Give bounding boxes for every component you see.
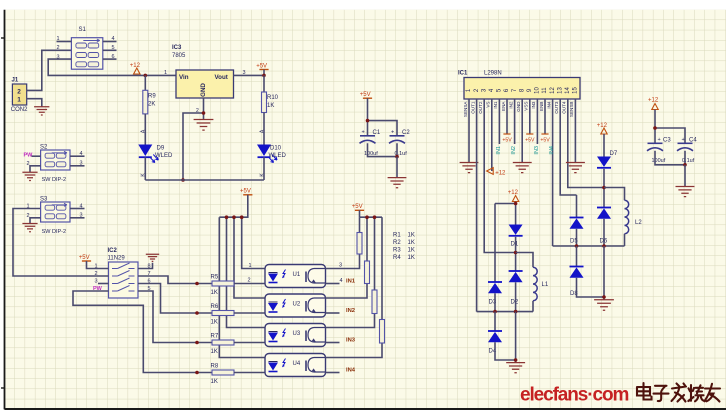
svg-text:1: 1: [17, 97, 21, 104]
svg-text:15: 15: [573, 87, 579, 94]
wire L1 bottom to rail: [532, 301, 534, 312]
svg-text:R2: R2: [393, 240, 401, 246]
wire IC1 pin14 OUT4 to right bridge node: [568, 99, 604, 188]
wire D4 anode to ground node: [495, 342, 516, 360]
wire R1-R4 top rail: [360, 216, 383, 218]
wire +5V node to R10: [263, 75, 265, 92]
junction LED return rail: [181, 178, 185, 182]
wire D2 to rail: [515, 282, 517, 311]
svg-text:D10: D10: [270, 146, 282, 152]
wire IC1 pin2 OUT1 to left bridge rail: [476, 99, 478, 312]
wire +12 rail to R9: [144, 75, 146, 90]
wire C bank to ground: [396, 157, 398, 178]
wire D6 to rail: [603, 219, 605, 246]
power +5V at IC2 pin1: [79, 255, 91, 261]
svg-text:+12: +12: [597, 123, 608, 129]
wire rail to U1 pin1: [242, 217, 265, 268]
svg-text:3: 3: [80, 213, 83, 219]
svg-text:8: 8: [148, 264, 151, 270]
svg-text:+5V: +5V: [540, 138, 550, 144]
svg-text:+5V: +5V: [240, 189, 251, 195]
svg-text:1: 1: [164, 70, 167, 76]
svg-text:R1: R1: [393, 233, 401, 239]
wire IC1 pin11 ENB stub: [544, 99, 546, 134]
svg-text:+5V: +5V: [525, 138, 535, 144]
border ruler tick top: [1, 37, 5, 39]
IC1 pin name labels SENSA..SENSB: [463, 101, 574, 118]
svg-text:IC3: IC3: [172, 45, 182, 51]
wire S2 pin4 stub: [70, 155, 85, 157]
wire +5V stem: [359, 210, 361, 217]
svg-text:+: +: [391, 129, 394, 135]
svg-text:1K: 1K: [211, 320, 218, 326]
svg-text:Vin: Vin: [179, 74, 189, 81]
wire IC2 pin6 to R6 row: [138, 284, 212, 314]
junction C1 top rail: [366, 119, 370, 123]
wire IC3 Vout to +5V node: [234, 74, 265, 76]
wire D3 cathode row to +12 column: [495, 203, 516, 205]
svg-text:4: 4: [112, 36, 115, 42]
capacitor C4 0.1uf: [677, 137, 697, 164]
DIP switch S1: [71, 27, 102, 69]
svg-text:3: 3: [80, 161, 83, 167]
capacitor C1 100uf: [360, 129, 381, 157]
svg-text:OUT2: OUT2: [478, 101, 483, 114]
wire rail to R4: [381, 217, 383, 319]
svg-text:13: 13: [557, 87, 563, 94]
wire J1 pin2 to S1 pin2: [27, 50, 72, 90]
wire rail to D8 cathode: [576, 246, 578, 267]
optocoupler U4: [265, 354, 326, 377]
svg-text:4: 4: [80, 203, 83, 209]
wire rail to U4 pin1: [219, 217, 265, 357]
svg-text:1: 1: [57, 36, 60, 42]
svg-text:SW DIP-2: SW DIP-2: [42, 177, 66, 183]
wire rail to U2 pin1: [234, 217, 265, 298]
diode D8: [570, 267, 584, 278]
svg-text:S3: S3: [40, 197, 48, 203]
capacitor C3 100uf: [647, 137, 671, 164]
power +12 above D1: [508, 190, 519, 202]
power +12 at input rail: [130, 63, 141, 74]
svg-text:S2: S2: [40, 145, 48, 151]
wire U3 pin4 out: [326, 342, 340, 344]
wire rail to R2: [366, 217, 368, 261]
wire U2 pin3 to R2: [326, 284, 368, 299]
svg-text:SENSA: SENSA: [463, 101, 468, 118]
wire D9 cathode down: [144, 157, 146, 180]
ground at IC2 pin8: [146, 254, 159, 261]
svg-text:+5V: +5V: [502, 138, 512, 144]
svg-text:IN4: IN4: [346, 368, 356, 374]
svg-text:+12: +12: [508, 190, 519, 196]
wire R10 to D10 anode: [263, 113, 265, 145]
IC2 driver: [109, 262, 139, 298]
resistor R6: [212, 311, 234, 316]
svg-text:+: +: [682, 137, 685, 143]
svg-text:+12: +12: [495, 171, 506, 177]
wire D8 anode to ground node: [577, 278, 605, 297]
wire D5 anode to rail: [576, 229, 578, 246]
junction C3 top rail: [653, 126, 657, 130]
junction rail / D6 column: [602, 244, 606, 248]
wire R6 to U2 pin2: [234, 312, 265, 314]
svg-text:0.1uf: 0.1uf: [682, 158, 695, 164]
voltage regulator IC3 7805: [176, 70, 234, 98]
junction left bridge node: [514, 251, 518, 255]
svg-text:2: 2: [95, 271, 98, 277]
svg-text:ENB: ENB: [539, 102, 544, 111]
svg-text:ENA: ENA: [501, 101, 506, 111]
svg-text:+5V: +5V: [360, 92, 371, 98]
junction C2 bottom rail: [395, 155, 399, 159]
inductor L1: [533, 267, 537, 301]
svg-text:2: 2: [27, 161, 30, 167]
wire left bridge bottom rail: [477, 311, 533, 313]
junction +5V node / R10: [262, 74, 266, 78]
junction C4 bottom rail: [683, 163, 687, 167]
svg-text:IC1: IC1: [458, 71, 468, 77]
svg-text:4: 4: [80, 151, 83, 157]
junction U3 anode rail: [225, 215, 229, 219]
svg-text:L298N: L298N: [484, 71, 502, 77]
svg-text:WLED: WLED: [269, 153, 287, 159]
svg-text:R9: R9: [148, 93, 156, 99]
IC1 pin numbers 1-15: [466, 87, 578, 94]
wire D7 to right bridge node: [603, 169, 605, 208]
wire C1/C2 bottom rail: [368, 143, 398, 156]
wire D6 column to ground: [603, 246, 605, 300]
wire U4 pin4 out: [326, 372, 340, 374]
wire R7 to U3 pin2: [234, 342, 265, 344]
diode D4: [488, 331, 502, 342]
wire S2 pin2 to ground: [30, 166, 41, 172]
resistor R2: [365, 261, 370, 284]
svg-text:IN1: IN1: [493, 101, 498, 109]
wire U4 pin3 to R4: [326, 343, 383, 358]
wire IC1 pin9 VSS stub: [529, 99, 531, 134]
junction R6 row: [195, 311, 199, 315]
resistor R9: [143, 90, 148, 114]
svg-text:VS: VS: [486, 102, 491, 108]
svg-text:R10: R10: [267, 95, 279, 101]
svg-text:6: 6: [112, 54, 115, 60]
svg-text:R8: R8: [211, 364, 219, 370]
wire U1 pin4 out: [326, 283, 340, 285]
junction at IC3 GND node: [202, 111, 206, 115]
S1 pin6 line: [103, 58, 117, 60]
svg-text:1K: 1K: [267, 103, 274, 109]
svg-text:OUT1: OUT1: [470, 101, 475, 114]
svg-text:2: 2: [17, 88, 21, 95]
wire J1 pin1 to ground: [27, 99, 42, 107]
wire L2 bottom to rail: [624, 234, 626, 246]
power +5V at IC1 ENB: [540, 134, 550, 144]
svg-text:1K: 1K: [408, 255, 415, 261]
wire S3 pin4 stub: [70, 208, 85, 210]
svg-text:S1: S1: [79, 27, 87, 33]
svg-text:12: 12: [550, 87, 556, 94]
svg-text:7805: 7805: [172, 53, 186, 59]
wire D2 column to ground: [515, 312, 517, 363]
wire IC1 pin1 SENSA to ground: [468, 99, 470, 162]
sheet border left edge: [4, 10, 6, 410]
junction R5 row: [195, 282, 199, 286]
wire IC2 pin3 stub: [98, 283, 109, 285]
svg-text:GND: GND: [200, 83, 207, 97]
svg-text:2K: 2K: [148, 101, 155, 107]
junction ground node right bridge: [602, 295, 606, 299]
svg-text:14: 14: [565, 87, 571, 94]
svg-text:IN1: IN1: [346, 279, 356, 285]
border ruler tick bottom: [1, 387, 5, 389]
resistor R5: [212, 281, 234, 286]
svg-text:SW DIP-2: SW DIP-2: [42, 229, 66, 235]
wire S2 pin3 stub: [70, 165, 85, 167]
svg-text:11: 11: [542, 87, 548, 94]
svg-text:GND: GND: [516, 101, 521, 112]
svg-text:IN2: IN2: [508, 101, 513, 109]
junction rail / D2 column: [514, 310, 518, 314]
optocoupler U2: [265, 294, 326, 317]
svg-text:2: 2: [248, 278, 251, 284]
watermark Chinese characters: [637, 383, 720, 402]
junction R3 rail: [373, 215, 377, 219]
R1-R4 value table: [393, 233, 415, 262]
wire +12 to D7: [603, 134, 605, 157]
wire S2 pin1 PW stub: [32, 155, 41, 157]
wire C3/C4 bottom rail: [655, 151, 685, 165]
svg-text:1K: 1K: [408, 248, 415, 254]
svg-text:J1: J1: [12, 78, 19, 84]
svg-text:1: 1: [27, 203, 30, 209]
svg-text:IN3: IN3: [531, 101, 536, 109]
svg-text:+: +: [362, 129, 365, 135]
S1 pin1 line: [57, 41, 72, 43]
svg-text:R5: R5: [211, 275, 219, 281]
wire IC1 pin15 SENSB to ground: [574, 99, 576, 162]
ground at IC1 pin15: [566, 163, 585, 173]
wire +12 to D1 anode: [515, 202, 517, 225]
svg-text:1: 1: [249, 263, 252, 269]
capacitor C2 0.1uf: [389, 129, 410, 157]
wire rail to U3 pin1: [227, 217, 266, 327]
wire IC1 pin8 GND to ground: [521, 99, 523, 162]
junction R8 row: [195, 371, 199, 375]
sheet border bottom edge: [5, 408, 726, 410]
svg-text:+12: +12: [130, 63, 141, 69]
ground at S2: [22, 172, 37, 180]
power +5V at R1-R4 rail: [352, 204, 364, 210]
wire IC3 GND node to LED return rail: [183, 113, 204, 180]
svg-text:100uf: 100uf: [652, 158, 666, 164]
wire U3 pin3 to R3: [326, 314, 375, 328]
svg-text:1K: 1K: [211, 290, 218, 296]
wire D3 anode to rail: [494, 293, 496, 311]
junction U1 anode rail: [240, 215, 244, 219]
svg-text:U4: U4: [293, 361, 301, 367]
junction +12 rail / R9: [144, 74, 148, 78]
svg-text:C4: C4: [689, 137, 697, 143]
wire IC2 pin7 to R5 row: [138, 276, 212, 284]
svg-text:1: 1: [95, 264, 98, 270]
wire D3 cathode up: [494, 204, 496, 283]
diode D2: [509, 271, 523, 282]
svg-text:4: 4: [340, 278, 343, 284]
svg-text:IN1: IN1: [496, 146, 502, 155]
wire +5V to C1: [367, 98, 369, 136]
wire U1 pin3 to R1: [326, 254, 360, 269]
svg-text:R6: R6: [211, 304, 219, 310]
power +12 at C3/C4: [648, 98, 659, 110]
S1 pin5 line: [103, 49, 117, 51]
wire right bridge bottom rail: [553, 245, 625, 247]
wire R8 to U4 pin2: [234, 372, 265, 374]
svg-text:1K: 1K: [211, 379, 218, 385]
svg-text:R3: R3: [393, 248, 401, 254]
svg-text:3: 3: [95, 279, 98, 285]
resistor R8: [212, 370, 234, 375]
svg-text:3: 3: [243, 70, 246, 76]
power +12 at IC1 VS pin: [487, 168, 506, 177]
DIP switch S2: [40, 145, 70, 184]
svg-text:2: 2: [57, 45, 60, 51]
svg-text:OUT4: OUT4: [562, 101, 567, 114]
connector J1 CON2: [12, 84, 26, 105]
svg-text:3: 3: [339, 263, 342, 269]
resistor R10: [262, 92, 267, 113]
wire IC1 pin6 ENA stub: [506, 99, 508, 134]
wire IC2 pin4 PW net to R8 row: [73, 291, 212, 373]
wire IC1 pin10 IN3 stub: [536, 99, 538, 144]
wire C3/C4 top rail: [655, 128, 685, 143]
diode D3: [488, 282, 502, 293]
svg-text:10: 10: [535, 87, 541, 94]
svg-text:L2: L2: [635, 220, 642, 226]
svg-text:C1: C1: [373, 130, 381, 136]
wire R5 to U1 pin2: [234, 283, 265, 285]
wire LED cathode return rail: [145, 179, 264, 181]
ground below C1/C2: [388, 178, 407, 188]
wire S3 pin1 to IC2 pin2: [13, 209, 109, 277]
svg-text:+5V: +5V: [352, 204, 363, 210]
svg-text:6: 6: [148, 279, 151, 285]
wire U2 pin4 out: [326, 312, 340, 314]
ground left bridge: [506, 363, 525, 373]
wire +12 to C3: [654, 110, 656, 144]
svg-text:+5V: +5V: [256, 63, 267, 69]
svg-text:D9: D9: [157, 146, 165, 152]
junction rail / D3 column: [493, 310, 497, 314]
junction ground node left bridge: [514, 358, 518, 362]
junction R2 rail: [365, 215, 369, 219]
junction U2 anode rail: [232, 215, 236, 219]
svg-text:11N29: 11N29: [108, 256, 126, 262]
optocoupler U1: [265, 265, 326, 288]
svg-text:5: 5: [112, 45, 115, 51]
junction R7 row: [195, 341, 199, 345]
svg-text:U3: U3: [293, 331, 301, 337]
ground at IC1 pin1: [460, 163, 479, 173]
ground right bridge: [594, 300, 614, 311]
ground below IC3: [194, 120, 214, 131]
wire IC1 pin12 IN4 column to right bridge rail: [552, 99, 554, 246]
resistor R3: [372, 290, 377, 314]
svg-text:CON2: CON2: [11, 107, 28, 113]
wire IC1 pin7 IN2 stub: [514, 99, 516, 144]
svg-text:WLED: WLED: [155, 153, 173, 159]
wire rail to R1: [359, 217, 361, 232]
junction +12 row left bridge: [514, 202, 518, 206]
ground at IC1 pin8: [513, 163, 532, 173]
wire IC1 pin4 VS down: [491, 99, 493, 171]
svg-text:IN3: IN3: [346, 338, 356, 344]
svg-text:1K: 1K: [408, 240, 415, 246]
svg-text:SENSB: SENSB: [569, 102, 574, 118]
resistor R1: [357, 233, 362, 255]
junction right bridge node: [602, 186, 606, 190]
wire rail to R3: [374, 217, 376, 290]
wire S1 pin3 to IC3 Vin (+12 rail): [48, 59, 176, 75]
power +5V at C1/C2: [360, 92, 372, 98]
svg-text:7: 7: [148, 271, 151, 277]
power +5V for optocoupler anodes: [240, 189, 252, 195]
svg-text:R4: R4: [393, 255, 401, 261]
svg-text:+5V: +5V: [79, 255, 90, 261]
svg-text:D2: D2: [511, 300, 519, 306]
wire +5V rail for optos: [219, 195, 248, 217]
wire IC1 pin3 OUT2 to left bridge node: [484, 99, 515, 253]
wire S3 pin2 to ground: [30, 218, 41, 223]
svg-text:IN2: IN2: [346, 308, 355, 314]
DIP switch S3: [40, 197, 70, 236]
svg-text:1K: 1K: [211, 349, 218, 355]
wire R9 to D9 anode: [144, 114, 146, 145]
wire IC2 pin5 to R7 row: [138, 291, 212, 343]
wire IC1 pin13 OUT3 to D5 column: [560, 99, 576, 195]
resistor R7: [212, 340, 234, 345]
svg-text:D1: D1: [511, 242, 519, 248]
svg-text:elecfans·com: elecfans·com: [520, 385, 628, 406]
svg-text:IN2: IN2: [511, 146, 517, 155]
junction rail / D5 column: [575, 244, 579, 248]
S1 pin4 line: [103, 41, 117, 43]
diode D6: [597, 208, 611, 219]
inductor L2: [625, 200, 629, 234]
svg-text:C3: C3: [663, 137, 671, 143]
svg-text:IN4: IN4: [546, 101, 551, 109]
svg-text:+12: +12: [648, 98, 659, 104]
svg-text:1K: 1K: [408, 233, 415, 239]
wire rail to D4 cathode: [494, 312, 496, 331]
driver IC1 L298N: [464, 78, 580, 100]
wire IC2 pin8 to ground: [138, 263, 153, 269]
svg-text:D7: D7: [610, 151, 618, 157]
diode D7: [597, 157, 611, 168]
wire IC3 GND pin down: [203, 98, 205, 119]
svg-text:+: +: [658, 137, 661, 143]
svg-text:C2: C2: [402, 130, 410, 136]
wire S3 pin3 stub: [70, 217, 85, 219]
wire node to L1 top: [516, 253, 533, 268]
wire +5V to IC2 pin1: [87, 261, 109, 269]
svg-text:OUT3: OUT3: [554, 101, 559, 114]
wire IC1 pin5 IN1 stub: [498, 99, 500, 144]
svg-text:VSS: VSS: [524, 102, 529, 111]
power +12 above D7: [597, 123, 608, 134]
ground at S3: [22, 224, 37, 232]
svg-text:L1: L1: [542, 282, 549, 288]
